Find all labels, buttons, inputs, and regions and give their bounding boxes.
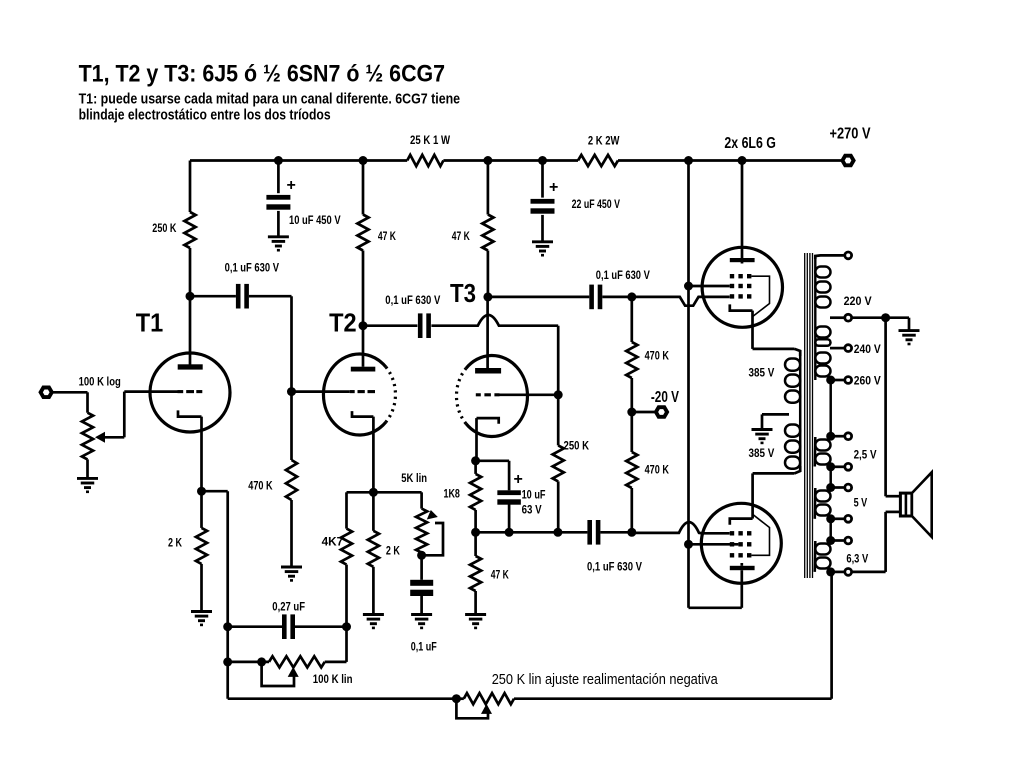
wire 100K lin left — [228, 661, 269, 664]
wire feedback left — [228, 697, 457, 700]
svg-text:0,1 uF 630 V: 0,1 uF 630 V — [596, 268, 650, 282]
wire lower plate loop — [689, 544, 742, 608]
label 385 V upper — [749, 365, 775, 379]
wire C1 left — [190, 295, 236, 298]
wire T2 cathode lead — [372, 417, 375, 493]
transformer secondary 2,5V winding — [815, 437, 831, 467]
node 0,27 left — [223, 622, 232, 631]
subtitle line 2 — [79, 107, 331, 124]
node upper grid bias — [627, 292, 636, 301]
svg-text:385 V: 385 V — [749, 365, 775, 379]
triode T1 envelope — [150, 353, 230, 432]
wire T1 cathode lead — [200, 417, 203, 492]
tap 2,5V top — [826, 432, 851, 441]
svg-text:10 uF 450 V: 10 uF 450 V — [289, 213, 341, 227]
secondary link B-C — [829, 467, 832, 488]
wire 47K-T2 top — [362, 161, 365, 215]
wire 0,27 right — [295, 625, 347, 628]
wire 220V to ground — [853, 318, 910, 331]
tap 5V bottom — [826, 496, 867, 524]
wire T1 cathode to 2K — [200, 491, 203, 528]
svg-text:220 V: 220 V — [844, 294, 872, 308]
wire upper-grid with hop — [632, 297, 730, 306]
svg-text:385 V: 385 V — [749, 446, 775, 460]
node T3 grid — [554, 390, 563, 399]
wire pot bottom — [86, 459, 89, 478]
node 0,27 right — [342, 622, 351, 631]
resistor 25 K 1 W — [407, 133, 450, 166]
wire to C4 — [558, 531, 588, 534]
resistor 470 K (lower bias) — [626, 412, 669, 532]
ground 470K-T2 — [281, 567, 302, 580]
node T3 plate — [483, 292, 492, 301]
wire 250K-T3 bottom — [557, 481, 560, 532]
ground 47K cathode — [465, 615, 486, 628]
T2 cathode — [352, 411, 373, 417]
resistor 47 K (T3) — [452, 215, 494, 251]
T3 plate — [475, 368, 501, 374]
T1 grid — [178, 390, 203, 393]
svg-text:100 K log: 100 K log — [79, 374, 121, 388]
wire upper cathode lead — [753, 311, 801, 356]
wire 2K-T1 bottom — [200, 564, 203, 612]
svg-text:1K8: 1K8 — [444, 487, 461, 501]
svg-text:47 K: 47 K — [378, 229, 396, 243]
wire T1 cathode branch — [202, 491, 228, 699]
svg-text:2 K: 2 K — [168, 536, 182, 550]
wire 10uF63 bottom — [508, 504, 511, 532]
T3 grid dashes — [476, 393, 500, 396]
wire T3 plate lead — [486, 297, 489, 368]
node rail-47K-T2 — [359, 156, 368, 165]
wire 100K lin right — [325, 661, 347, 664]
node 100K lin left node — [223, 657, 232, 666]
node T2 plate — [359, 321, 368, 330]
beam tube upper 6L6 envelope — [702, 247, 782, 327]
wire T1 plate lead — [189, 248, 192, 365]
svg-text:T2: T2 — [329, 308, 357, 338]
wire wiper to T1 grid — [124, 392, 177, 438]
capacitor 0,1 uF 630 V (C1) — [225, 260, 279, 308]
5K lin wiper — [422, 510, 443, 555]
node 250K lin left — [452, 694, 461, 703]
T2 grid — [350, 390, 375, 393]
svg-text:T1: puede usarse cada mitad: T1: puede usarse cada mitad para un cana… — [79, 91, 461, 108]
wire 10uF top — [277, 161, 280, 194]
wire tap bus — [476, 531, 558, 534]
tap 5V top — [826, 483, 851, 492]
wire 47K-T3 top — [487, 161, 490, 215]
title text — [79, 61, 446, 88]
svg-text:470 K: 470 K — [248, 479, 273, 493]
svg-text:250 K lin ajuste realimentació: 250 K lin ajuste realimentación negativa — [492, 671, 719, 688]
capacitor 22 uF 450 V — [531, 179, 621, 214]
svg-text:0,1 uF: 0,1 uF — [411, 640, 437, 654]
wire T2 grid — [292, 390, 350, 393]
node rail-22uF — [538, 156, 547, 165]
resistor 250 K — [152, 212, 195, 248]
tap 240 V — [830, 342, 881, 356]
label 100 K log — [79, 374, 121, 388]
ground 220V — [899, 331, 920, 344]
label 2x 6L6 G — [724, 135, 776, 152]
resistor 1K8 — [444, 461, 482, 533]
svg-text:5K lin: 5K lin — [401, 471, 427, 485]
node lower screen — [684, 540, 693, 549]
upper 6L6 cathode — [730, 304, 753, 310]
node rail-upper-plate — [738, 156, 747, 165]
tap 2,5V bottom — [826, 448, 876, 472]
svg-text:25 K 1 W: 25 K 1 W — [410, 133, 451, 147]
capacitor 0,1 uF 630 V (C3) — [589, 268, 650, 309]
svg-text:2,5 V: 2,5 V — [854, 448, 877, 462]
capacitor 10 uF 450 V — [266, 177, 340, 227]
wire screen supply vertical — [687, 161, 690, 545]
label 250 K lin — [492, 671, 719, 688]
100K lin wiper — [262, 662, 299, 686]
svg-text:6,3 V: 6,3 V — [846, 552, 868, 566]
wire speaker bottom — [853, 512, 901, 572]
node T3 cathode — [471, 456, 480, 465]
ground 0,1uF — [411, 615, 432, 628]
capacitor 0,1 uF (cathode) — [410, 555, 437, 653]
label T1 — [136, 308, 164, 338]
svg-text:2x 6L6 G: 2x 6L6 G — [724, 135, 776, 152]
speaker — [900, 472, 931, 537]
wire 47K-T3 bottom — [487, 251, 490, 297]
terminal secondary top — [845, 252, 852, 259]
ground 10uF — [268, 237, 289, 250]
upper 6L6 screen wire — [689, 285, 730, 288]
svg-text:T1, T2 y T3: 6J5 ó ½ 6SN7 ó ½: T1, T2 y T3: 6J5 ó ½ 6SN7 ó ½ 6CG7 — [79, 61, 446, 88]
wire cathode to 10uF — [476, 461, 510, 491]
node T2 grid — [287, 387, 296, 396]
capacitor 0,27 uF — [272, 600, 305, 640]
svg-text:10 uF: 10 uF — [522, 487, 546, 501]
upper 6L6 beam plates — [752, 276, 770, 316]
wire 22uF top — [541, 161, 544, 198]
terminal input — [41, 388, 52, 398]
triode T3 envelope — [456, 356, 527, 437]
wire 22uF bottom — [541, 215, 544, 242]
wire -20V — [632, 411, 655, 414]
wire lower-grid with hop — [632, 522, 730, 533]
resistor 2 K 2W — [578, 134, 620, 167]
wire C1 right — [249, 296, 292, 391]
wire B+ rail middle — [443, 159, 578, 162]
wire C4 right — [600, 531, 631, 534]
label 385 V lower — [749, 446, 775, 460]
ground 22uF — [532, 242, 553, 255]
wire 470K-T2 top — [290, 392, 293, 460]
node lower grid bias — [627, 528, 636, 537]
T3 cathode — [477, 418, 499, 424]
lower 6L6 plate — [730, 563, 755, 570]
wire 250K lin left — [456, 697, 463, 700]
wire primary center tap — [762, 414, 789, 429]
T1 plate — [178, 364, 203, 369]
svg-text:22 uF 450 V: 22 uF 450 V — [572, 197, 620, 211]
node speaker top — [881, 313, 890, 322]
svg-text:0,27 uF: 0,27 uF — [272, 600, 305, 614]
svg-text:470 K: 470 K — [645, 349, 670, 363]
wire speaker top — [886, 318, 901, 497]
svg-text:+: + — [549, 179, 558, 196]
svg-text:+: + — [287, 177, 296, 194]
wire 10uF bottom — [277, 211, 280, 237]
ground 2K-T1 — [191, 612, 212, 625]
transformer primary winding — [785, 353, 800, 469]
svg-text:260 V: 260 V — [854, 374, 881, 388]
ground 2K-T2 — [363, 615, 384, 628]
svg-text:0,1 uF 630 V: 0,1 uF 630 V — [385, 293, 440, 307]
wire 47K-T2 bottom — [362, 251, 365, 367]
node T1 plate-cap junction — [186, 292, 195, 301]
svg-text:5 V: 5 V — [854, 496, 868, 510]
beam tube lower 6L6 envelope — [701, 503, 781, 583]
pot wiper arrow — [95, 432, 124, 443]
ground pot — [77, 478, 98, 491]
svg-text:2 K 2W: 2 K 2W — [588, 134, 620, 148]
svg-text:250 K: 250 K — [564, 439, 590, 453]
node T1 cathode — [197, 487, 206, 496]
250K lin wiper — [456, 699, 492, 719]
node 5K lin bottom — [417, 551, 426, 560]
tap 6,3V top — [826, 536, 851, 545]
node rail-10uF — [274, 156, 283, 165]
svg-text:T3: T3 — [450, 278, 476, 308]
svg-text:0,1 uF 630 V: 0,1 uF 630 V — [587, 560, 642, 574]
wire C3 right — [602, 296, 632, 299]
wire T3 cathode lead — [475, 418, 478, 461]
wire lower cathode lead — [753, 466, 801, 519]
svg-text:250 K: 250 K — [152, 221, 176, 235]
resistor 2 K (T2) — [368, 492, 400, 614]
svg-text:+270 V: +270 V — [830, 125, 871, 142]
label T2 — [329, 308, 357, 338]
resistor 470 K (upper bias) — [626, 297, 669, 412]
transformer secondary 6,3V winding — [815, 541, 831, 572]
wire 470K-T2 bottom — [290, 500, 293, 567]
wire upper plate lead — [741, 161, 744, 264]
svg-text:2 K: 2 K — [386, 544, 400, 558]
svg-text:T1: T1 — [136, 308, 164, 338]
ground center tap — [752, 430, 773, 443]
node rail-47K-T3 — [483, 156, 492, 165]
resistor 47 K (T2) — [357, 215, 396, 251]
resistor 47 K (T3 cathode) — [470, 532, 509, 614]
triode T2 envelope — [323, 354, 395, 435]
resistor 4K7 — [322, 492, 353, 626]
node 1K8 bottom — [471, 528, 480, 537]
upper 6L6 grids — [730, 274, 752, 299]
transformer core — [805, 253, 813, 578]
lower 6L6 grids — [730, 531, 752, 557]
wire C2 left — [363, 324, 417, 327]
lower 6L6 beam plates — [751, 515, 769, 556]
node 100K lin wiper node — [257, 657, 266, 666]
capacitor 0,1 uF 630 V (C4) — [587, 520, 642, 574]
svg-text:0,1 uF 630 V: 0,1 uF 630 V — [225, 260, 279, 274]
capacitor 10 uF 63 V — [497, 471, 545, 517]
wire C2 right with hop — [431, 315, 558, 395]
wire input — [53, 392, 88, 412]
svg-text:470 K: 470 K — [645, 463, 670, 477]
lower 6L6 screen wire — [689, 543, 739, 546]
node 10uF63 bottom — [505, 528, 514, 537]
svg-text:63 V: 63 V — [522, 503, 542, 517]
secondary top lead — [815, 255, 844, 259]
svg-text:240 V: 240 V — [854, 342, 881, 356]
terminal +270 V — [830, 125, 871, 165]
capacitor 0,1 uF 630 V (C2) — [385, 293, 440, 338]
resistor 250 K (T3 grid) — [553, 439, 590, 482]
resistor 470 K (T2 grid) — [248, 460, 297, 500]
svg-text:47 K: 47 K — [452, 229, 470, 243]
secondary link C-D — [829, 519, 832, 541]
svg-text:-20 V: -20 V — [651, 389, 680, 406]
lower 6L6 cathode — [730, 519, 753, 525]
resistor 2 K (T1) — [168, 528, 207, 564]
tap 260 V — [826, 374, 881, 388]
wire feedback bottom — [514, 697, 832, 700]
svg-text:47 K: 47 K — [491, 568, 509, 582]
wire 0,27 left — [228, 625, 282, 628]
svg-text:100 K lin: 100 K lin — [313, 672, 353, 686]
potentiometer 250 K lin — [464, 693, 514, 704]
node 250K bottom — [553, 528, 562, 537]
wire T3 grid — [500, 393, 559, 396]
upper 6L6 plate — [730, 258, 755, 262]
subtitle line 1 — [79, 91, 461, 108]
wire 6,3V down — [830, 572, 833, 699]
svg-text:+: + — [514, 471, 523, 488]
T1 cathode — [178, 410, 202, 416]
wire B+ rail left — [190, 159, 407, 162]
tap 6,3V bottom — [826, 552, 868, 577]
node -20V — [627, 408, 636, 417]
wire B+ rail right — [618, 159, 842, 162]
wire T2 cathode bus — [347, 491, 422, 494]
transformer secondary HV winding — [815, 258, 830, 380]
wire 4K7 to 100K lin — [345, 627, 348, 662]
transformer secondary 5V winding — [815, 488, 831, 519]
wire C3 left — [488, 296, 589, 299]
node rail-screens — [684, 156, 693, 165]
terminal -20 V — [651, 389, 680, 417]
node T2 cathode — [369, 488, 378, 497]
svg-text:blindaje electrostático entre: blindaje electrostático entre los dos tr… — [79, 107, 331, 124]
T2 plate — [351, 367, 376, 372]
secondary link A-B — [829, 380, 832, 436]
potentiometer 100 K log — [82, 413, 93, 460]
potentiometer 100 K lin — [269, 656, 353, 686]
wire 250K column — [189, 161, 192, 213]
svg-text:4K7: 4K7 — [322, 535, 344, 549]
wire 250K-T3 top — [557, 395, 560, 446]
tap 220 V — [830, 294, 872, 321]
label T3 — [450, 278, 476, 308]
node upper screen — [684, 282, 693, 291]
potentiometer 5K lin — [401, 471, 427, 555]
